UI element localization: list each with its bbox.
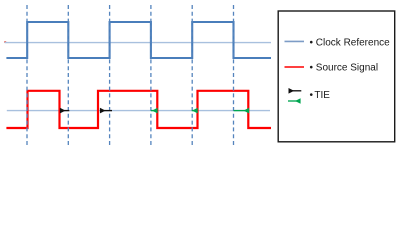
- legend TIE green arrow: [288, 100, 300, 102]
- legend source signal line swatch: [285, 66, 305, 68]
- dashed reference edge line 5: [191, 5, 193, 145]
- svg-text:•: •: [310, 90, 314, 101]
- dashed reference edge line 4: [150, 5, 152, 145]
- legend TIE black arrow: [290, 90, 302, 92]
- svg-text:• Clock Reference: • Clock Reference: [310, 38, 391, 49]
- TIE arrow 4 green late: [192, 110, 197, 112]
- TIE arrow 2 black early: [101, 110, 112, 112]
- dashed reference edge line 1: [26, 5, 28, 145]
- svg-text:TIE: TIE: [314, 90, 330, 101]
- source signal waveform: [6, 91, 271, 128]
- dashed reference edge line 3: [109, 5, 111, 145]
- svg-text:• Source Signal: • Source Signal: [310, 63, 379, 74]
- legend clock reference line swatch: [285, 40, 305, 42]
- TIE arrow 1 black early: [61, 110, 69, 112]
- TIE arrow 5 green late: [234, 110, 248, 112]
- clock reference waveform: [6, 22, 271, 58]
- TIE arrow 3 green late: [151, 110, 157, 112]
- stray red dot at clock center line start: [4, 41, 6, 43]
- dashed reference edge line 2: [67, 5, 69, 145]
- legend box: [278, 11, 395, 142]
- source signal center line: [7, 110, 270, 112]
- dashed reference edge line 6: [233, 5, 235, 145]
- clock reference center line: [5, 42, 271, 44]
